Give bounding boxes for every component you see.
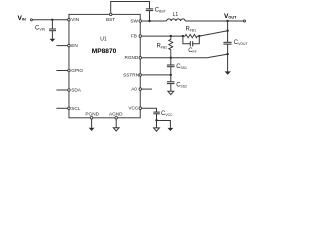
capacitor CVCC: [153, 112, 159, 114]
capacitor CVOUT: [223, 42, 231, 44]
wire CSS1 to SSTRN rail: [170, 67, 172, 75]
svg-text:VOUT: VOUT: [224, 13, 237, 20]
svg-text:CVIN: CVIN: [35, 26, 46, 32]
node junction CVOUT bottom: [226, 53, 228, 55]
capacitor CFF plates: [190, 41, 192, 46]
node junction SSTRN-CSS2: [170, 74, 172, 76]
pin A0: [139, 88, 142, 91]
ground (filled) CVIN: [50, 39, 56, 42]
wire CVCC bottom to ground: [156, 114, 158, 128]
pin VCC: [139, 107, 142, 110]
wire CBST to SW rail: [149, 11, 151, 21]
wire EN stub: [56, 45, 67, 47]
svg-text:PGND: PGND: [85, 111, 99, 116]
wire CSS1 top lead: [170, 58, 172, 65]
wire VOUT drop to CVOUT: [227, 21, 229, 42]
svg-text:CSS1: CSS1: [176, 64, 187, 70]
node junction VOUT drop: [226, 30, 228, 32]
svg-text:CSS2: CSS2: [176, 83, 187, 89]
wire PGND to ground: [91, 119, 93, 128]
wire CSS2 to ground: [170, 84, 172, 92]
pin FB: [139, 35, 142, 38]
svg-text:CBST: CBST: [155, 8, 166, 14]
svg-text:A0: A0: [131, 87, 137, 92]
node junction VOUT: [226, 20, 228, 22]
svg-text:CVCC: CVCC: [161, 111, 173, 117]
node junction FB-RFB2: [170, 35, 172, 37]
resistor RFB2: [169, 37, 173, 56]
svg-text:VIN: VIN: [18, 15, 26, 22]
svg-text:RFB1: RFB1: [186, 27, 197, 33]
node junction RFB1 right: [198, 35, 200, 37]
wire L1 to VOUT: [185, 20, 244, 22]
wire junction to CVIN: [51, 20, 53, 29]
svg-text:MP8870: MP8870: [92, 48, 117, 55]
wire CVIN to ground: [51, 31, 53, 39]
svg-text:GPIO: GPIO: [71, 68, 83, 73]
wire RFB1 right lead: [197, 35, 199, 37]
ground (hollow) AGND: [113, 128, 119, 131]
wire FB net to VOUT drop: [199, 31, 227, 36]
wire CVCC to right ground: [157, 121, 171, 128]
svg-text:VCC: VCC: [128, 106, 139, 111]
wire SCL stub: [56, 107, 67, 109]
capacitor CFF loop wires: [183, 36, 199, 44]
node VIN input terminal: [30, 19, 32, 21]
wire SW to L1: [142, 20, 167, 22]
svg-text:RGND: RGND: [124, 55, 138, 60]
wire GPIO stub: [56, 70, 67, 72]
ground (hollow) CVCC left: [154, 128, 160, 131]
pin SCL: [68, 107, 71, 110]
capacitor CSS1: [167, 65, 175, 67]
wire AGND to ground: [115, 119, 117, 128]
pin RGND: [139, 56, 142, 59]
wire RGND diagonal to CVOUT bottom: [207, 54, 228, 58]
wire SSTRN rail: [142, 74, 171, 76]
pin VIN: [68, 18, 71, 21]
svg-text:SSTRN: SSTRN: [123, 72, 139, 77]
pin EN: [68, 44, 71, 47]
svg-text:SDA: SDA: [71, 88, 82, 93]
svg-text:CFF: CFF: [188, 48, 197, 54]
svg-text:BST: BST: [106, 17, 115, 22]
svg-text:L1: L1: [173, 12, 179, 18]
svg-text:SCL: SCL: [71, 106, 81, 111]
ground (filled) CVCC right: [168, 128, 174, 131]
node VOUT terminal: [244, 20, 246, 22]
wire RGND rail: [142, 57, 207, 59]
svg-text:VIN: VIN: [71, 17, 79, 22]
node junction CBST-SW: [148, 20, 150, 22]
capacitor CBST: [146, 9, 153, 11]
svg-text:RFB2: RFB2: [157, 44, 168, 50]
svg-text:EN: EN: [71, 43, 78, 48]
pin SDA: [68, 89, 71, 92]
ground (filled) CVOUT: [225, 71, 231, 74]
svg-text:U1: U1: [100, 37, 107, 43]
op-amp U1 MP8870 IC body: [69, 14, 140, 117]
wire VIN input to pin VIN: [33, 19, 68, 21]
wire CVOUT to ground: [227, 44, 229, 71]
resistor RFB1: [185, 34, 197, 37]
pin AGND: [115, 117, 118, 120]
svg-text:SW: SW: [130, 19, 138, 24]
svg-text:CVOUT: CVOUT: [234, 40, 248, 46]
pin GPIO: [68, 69, 71, 72]
svg-text:AGND: AGND: [109, 111, 123, 116]
wire SDA stub: [56, 89, 67, 91]
node junction CVIN tap: [51, 19, 53, 21]
node junction CVCC ground: [155, 119, 157, 121]
ground (hollow) CSS2: [168, 91, 174, 94]
pin BST: [109, 13, 112, 16]
node junction RFB1 left: [182, 35, 184, 37]
inductor L1: [167, 19, 186, 21]
pin PGND: [90, 117, 93, 120]
node junction RFB2-CSS1: [170, 57, 172, 59]
wire A0 stub: [142, 88, 152, 90]
ground (filled) PGND: [89, 128, 95, 131]
pin SW: [139, 20, 142, 23]
svg-text:FB: FB: [131, 34, 137, 39]
wire CSS2 top lead: [170, 75, 172, 82]
pin SSTRN: [139, 74, 142, 77]
capacitor CVIN: [49, 29, 56, 31]
wire FB to divider: [142, 35, 185, 37]
wire BST to CBST: [111, 2, 150, 14]
wire VCC to CVCC: [142, 108, 157, 112]
capacitor CSS2: [167, 82, 175, 84]
